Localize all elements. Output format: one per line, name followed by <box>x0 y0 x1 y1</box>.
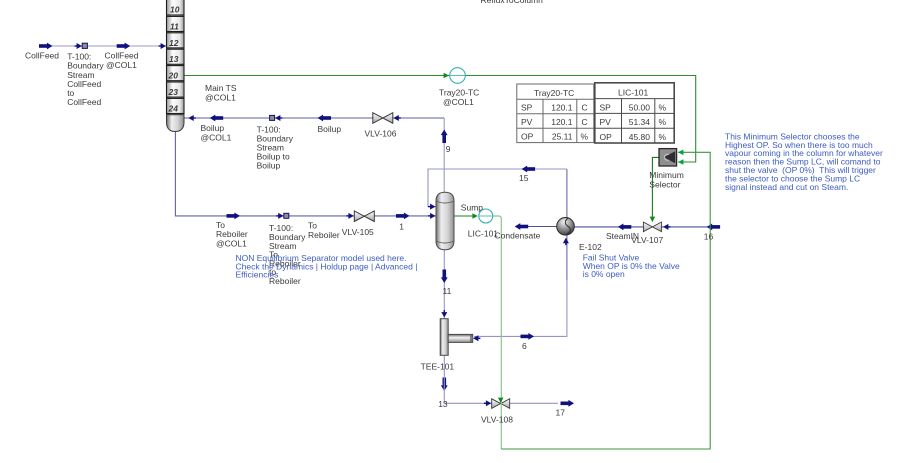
arrowhead into VLV-108 <box>484 400 491 406</box>
stream SteamIN bold arrow <box>618 224 632 231</box>
svg-text:%: % <box>581 132 589 142</box>
signal wire bottom loop <box>501 152 710 449</box>
wire stream 6 (TEE branch right then up into E-102 bottom) <box>474 280 567 336</box>
svg-text:17: 17 <box>556 408 566 418</box>
svg-text:9: 9 <box>446 144 451 154</box>
svg-text:120.1: 120.1 <box>551 117 573 127</box>
wire stream CollFeed (feed line into column) <box>45 45 167 47</box>
svg-text:SP: SP <box>521 103 533 113</box>
svg-text:Boilup: Boilup <box>318 124 342 134</box>
vessel Sump bottom weld line <box>436 241 454 243</box>
svg-text:VLV-105: VLV-105 <box>342 227 374 237</box>
stream CollFeed@COL1 bold arrow <box>117 43 131 50</box>
svg-text:CollFeed: CollFeed <box>105 50 139 60</box>
arrowhead into sump (stream 1) <box>428 213 435 219</box>
wire stream 11 (sump bottom to TEE top) <box>443 250 445 319</box>
column tray cell 24 <box>167 98 185 113</box>
column tray cell 12 <box>167 33 185 48</box>
wire stream SteamIN (right edge to E-102) <box>574 226 720 228</box>
svg-text:is 0% open: is 0% open <box>583 269 625 279</box>
signal wire Tray20-TC (green, column tray 20 to selector bottom input) <box>184 76 696 163</box>
svg-text:@COL1: @COL1 <box>443 97 474 107</box>
stream 17 bold arrow <box>561 400 575 407</box>
green arrowhead into Tray20-TC controller <box>444 73 449 79</box>
stream 9 bold arrow up <box>441 130 448 144</box>
svg-text:@COL1: @COL1 <box>216 238 247 248</box>
arrowhead into column tray 12 <box>159 43 166 49</box>
svg-text:OP: OP <box>600 132 613 142</box>
svg-text:VLV-106: VLV-106 <box>365 128 397 138</box>
stream 13 bold arrow down <box>441 378 448 392</box>
svg-text:10: 10 <box>170 5 180 15</box>
svg-text:Efficiencies: Efficiencies <box>236 270 279 280</box>
svg-text:Selector: Selector <box>649 179 680 189</box>
stream Boilup bold arrow <box>318 115 332 122</box>
svg-text:13: 13 <box>169 54 179 64</box>
controller Tray20-TC (circle) <box>450 68 466 84</box>
svg-text:11: 11 <box>443 286 452 296</box>
connector T-100 boundary To Reboiler: square <box>284 213 289 218</box>
stream Condensate bold arrow <box>515 223 529 230</box>
annotation This Minimum Selector (blue) <box>725 131 883 192</box>
stream Boilup@COL1 bold arrow <box>210 115 224 122</box>
valve VLV-108 <box>492 399 510 409</box>
arrowhead at TEE branch tip <box>473 335 480 341</box>
green arrowhead into LIC-101 <box>472 213 477 219</box>
svg-text:25.11: 25.11 <box>552 132 573 142</box>
connector T-100 boundary To Reboiler: arrowhead <box>276 213 283 219</box>
svg-text:1: 1 <box>399 222 404 232</box>
svg-text:@COL1: @COL1 <box>205 92 236 102</box>
svg-text:PV: PV <box>600 117 612 127</box>
svg-text:Condensate: Condensate <box>495 231 541 241</box>
valve VLV-107 <box>643 222 661 232</box>
arrowhead into column (Boilup@COL1) <box>188 115 195 121</box>
svg-text:Sump: Sump <box>461 203 483 213</box>
signal wire Minimum Selector output to VLV-107 <box>652 157 659 221</box>
svg-text:PV: PV <box>521 117 533 127</box>
stream To Reboiler@COL1 bold arrow <box>227 213 241 220</box>
column T-100 shell <box>167 0 185 115</box>
green arrowhead into selector top input <box>678 150 683 156</box>
svg-text:15: 15 <box>519 173 529 183</box>
svg-text:signal instead and cut on Stea: signal instead and cut on Steam. <box>725 182 848 192</box>
connector T-100 boundary CollFeed: arrowhead <box>75 43 82 49</box>
svg-text:LIC-101: LIC-101 <box>618 87 649 97</box>
arrowhead up into E-102 <box>563 238 569 245</box>
svg-text:Boilup: Boilup <box>201 123 225 133</box>
signal wire Sump level to LIC-101 (green) <box>454 215 473 217</box>
tee TEE-101 branch end cap <box>470 334 472 342</box>
svg-text:TEE-101: TEE-101 <box>421 362 455 372</box>
svg-text:Tray20-TC: Tray20-TC <box>534 88 574 98</box>
vessel Sump separator <box>436 192 454 250</box>
svg-text:E-102: E-102 <box>579 242 602 252</box>
svg-text:C: C <box>582 117 588 127</box>
table Tray20-TC faceplate <box>517 84 594 143</box>
svg-text:C: C <box>582 103 588 113</box>
green arrowhead onto VLV-108 <box>498 398 504 403</box>
wire stream Condensate (out of E-102 left) <box>528 226 557 228</box>
svg-text:20: 20 <box>168 71 179 81</box>
svg-text:16: 16 <box>704 231 714 241</box>
svg-text:VLV-107: VLV-107 <box>631 235 663 245</box>
svg-text:13: 13 <box>438 399 448 409</box>
vessel Sump top weld line <box>436 201 454 203</box>
column T-100 bottom head <box>167 115 185 132</box>
tee TEE-101 branch barrel <box>448 334 473 342</box>
tee TEE-101 vertical barrel <box>440 319 448 356</box>
signal wire LIC-101 output (green loop to VLV-108 and selector top input) <box>493 216 502 449</box>
wire To Reboiler (column bottom to sump) <box>175 132 436 216</box>
valve VLV-105 <box>354 211 374 222</box>
svg-text:12: 12 <box>169 38 179 48</box>
stream 6 bold arrow <box>521 333 535 340</box>
arrowhead into sump (stream 15) <box>428 204 435 210</box>
arrowhead into TEE-101 <box>441 310 447 317</box>
stream 1 bold arrow <box>396 213 410 220</box>
svg-text:@COL1: @COL1 <box>201 133 232 143</box>
valve VLV-106 <box>373 113 393 124</box>
stream CollFeed entry bold arrow <box>39 43 53 50</box>
connector T-100 boundary CollFeed: square <box>82 43 87 48</box>
column tray cell 11 <box>167 16 185 31</box>
svg-text:6: 6 <box>522 341 527 351</box>
wire stream Boilup (from junction x444 into column tray 24) <box>184 117 444 119</box>
Minimum Selector inner glyph <box>664 151 675 163</box>
svg-text:RefluxToColumn: RefluxToColumn <box>481 0 544 5</box>
svg-text:%: % <box>659 117 667 127</box>
wire stream 15 (E-102 top, up and left into sump) <box>566 169 568 218</box>
controller LIC-101 (circle) <box>479 209 493 223</box>
svg-text:VLV-108: VLV-108 <box>481 415 513 425</box>
svg-text:Boilup: Boilup <box>257 160 281 170</box>
svg-text:23: 23 <box>168 87 179 97</box>
svg-text:120.1: 120.1 <box>551 103 573 113</box>
heat exchanger E-102 (sphere) <box>557 218 575 236</box>
E-102 internal zigzag <box>565 218 570 234</box>
svg-text:Reboiler: Reboiler <box>308 230 340 240</box>
svg-text:SP: SP <box>600 102 612 112</box>
svg-text:@COL1: @COL1 <box>106 60 137 70</box>
svg-text:OP: OP <box>521 132 534 142</box>
svg-text:CollFeed: CollFeed <box>67 97 101 107</box>
svg-text:%: % <box>659 132 667 142</box>
svg-text:51.34: 51.34 <box>629 117 651 127</box>
column tray cell 20 <box>167 66 185 81</box>
table LIC-101 faceplate <box>595 83 674 143</box>
column tray cell 13 <box>167 49 185 64</box>
svg-text:CollFeed: CollFeed <box>25 50 59 60</box>
svg-text:%: % <box>659 102 667 112</box>
stream 11 bold arrow down <box>441 270 448 284</box>
connector T-100 boundary Boilup: arrowhead <box>275 115 282 121</box>
arrowhead into VLV-107 <box>663 224 670 230</box>
wire stream 9 vertical (sump top to boilup line) <box>443 118 445 193</box>
svg-text:24: 24 <box>168 103 179 113</box>
svg-text:Tray20-TC: Tray20-TC <box>439 88 479 98</box>
stream 15 bold arrow <box>522 166 536 173</box>
svg-text:11: 11 <box>170 21 179 31</box>
stream 16 bold arrow (pointing left) <box>707 224 721 231</box>
column tray cell 10 <box>167 0 185 15</box>
arrowhead into VLV-105 <box>346 213 353 219</box>
wire stream 13 (TEE bottom, down then right through VLV-108) <box>444 355 558 403</box>
arrowhead into VLV-106 <box>393 115 400 121</box>
green arrowhead onto VLV-107 <box>650 217 656 222</box>
column tray cell 23 <box>167 82 185 97</box>
svg-text:50.00: 50.00 <box>629 102 651 112</box>
Minimum Selector block <box>659 149 677 166</box>
svg-text:45.80: 45.80 <box>629 132 651 142</box>
connector T-100 boundary Boilup: square <box>270 115 275 120</box>
green arrowhead into selector bottom input <box>678 159 683 165</box>
